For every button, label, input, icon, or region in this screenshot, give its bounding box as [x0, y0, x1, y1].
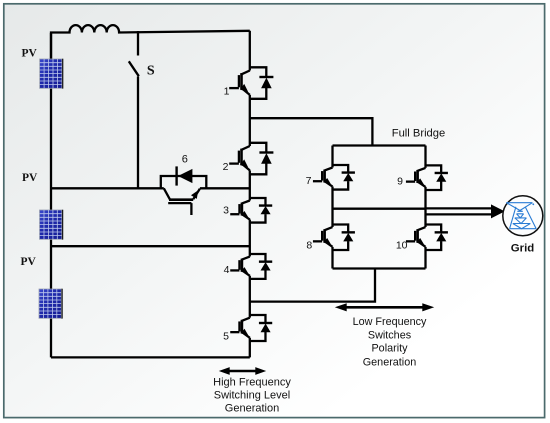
grid symbol circle	[503, 196, 543, 236]
svg-text:S: S	[147, 64, 155, 79]
igbt Q7	[313, 165, 355, 190]
svg-text:Low Frequency: Low Frequency	[353, 316, 427, 328]
wire: tap to full-bridge top	[250, 118, 373, 145]
wire: PV tap row 2	[51, 245, 250, 247]
svg-text:Switching Level: Switching Level	[214, 390, 290, 402]
svg-text:PV: PV	[21, 256, 37, 268]
wire: main switch column rail segments	[249, 31, 251, 358]
svg-text:10: 10	[396, 240, 408, 252]
high frequency caption	[213, 377, 291, 415]
wire: switch S branch upper	[137, 31, 139, 56]
svg-text:2: 2	[223, 161, 229, 173]
igbt Q9	[406, 165, 448, 190]
high frequency span arrow	[219, 367, 266, 375]
svg-text:7: 7	[306, 175, 312, 187]
svg-text:1: 1	[224, 85, 230, 97]
svg-text:Switches: Switches	[368, 329, 412, 341]
wire: switch S branch lower	[137, 77, 139, 189]
igbt Q4	[230, 254, 272, 279]
low frequency caption	[353, 316, 427, 369]
wire: PV tap row 1 (right of device 6)	[200, 187, 250, 189]
wire: bridge top bus	[333, 144, 426, 146]
wire: left PV string rail	[50, 33, 52, 357]
PV module 3	[39, 289, 62, 319]
igbt Q1	[229, 67, 273, 99]
svg-text:8: 8	[306, 240, 312, 252]
igbt Q5	[230, 315, 272, 341]
svg-text:Full Bridge: Full Bridge	[392, 128, 445, 140]
svg-text:Polarity: Polarity	[371, 342, 408, 354]
svg-text:Generation: Generation	[363, 356, 416, 368]
svg-text:4: 4	[224, 264, 230, 276]
bidirectional device 6	[161, 166, 207, 215]
PV module 2	[40, 210, 63, 240]
wire: bridge bottom bus	[333, 267, 426, 269]
wire: bridge return drop to rail	[250, 269, 375, 302]
svg-text:PV: PV	[22, 172, 38, 184]
arrow head to grid	[491, 204, 505, 218]
wire: bridge mid bus	[333, 208, 426, 210]
low frequency span arrow	[335, 303, 434, 311]
svg-text:5: 5	[223, 331, 229, 343]
wire: bottom return	[51, 356, 250, 358]
switch S blade	[129, 61, 139, 76]
svg-text:PV: PV	[22, 48, 38, 60]
svg-text:9: 9	[397, 176, 403, 188]
PV module 1	[40, 59, 63, 89]
svg-text:Grid: Grid	[511, 242, 534, 254]
wire: bridge left leg segments	[331, 146, 333, 269]
svg-text:High Frequency: High Frequency	[213, 377, 291, 389]
wire: bridge right leg segments	[424, 146, 426, 269]
wire: top rail with inductor L	[51, 25, 250, 60]
svg-text:Generation: Generation	[225, 402, 279, 414]
igbt Q8	[313, 225, 355, 251]
grid pylon icon	[506, 203, 536, 229]
wire: ac output double line	[426, 208, 492, 214]
igbt Q3	[230, 198, 272, 223]
igbt Q2	[229, 143, 273, 175]
igbt Q10	[406, 225, 448, 251]
svg-text:3: 3	[223, 205, 229, 217]
wire: PV tap row 1 (left of device 6)	[51, 187, 164, 189]
svg-text:6: 6	[182, 154, 188, 166]
